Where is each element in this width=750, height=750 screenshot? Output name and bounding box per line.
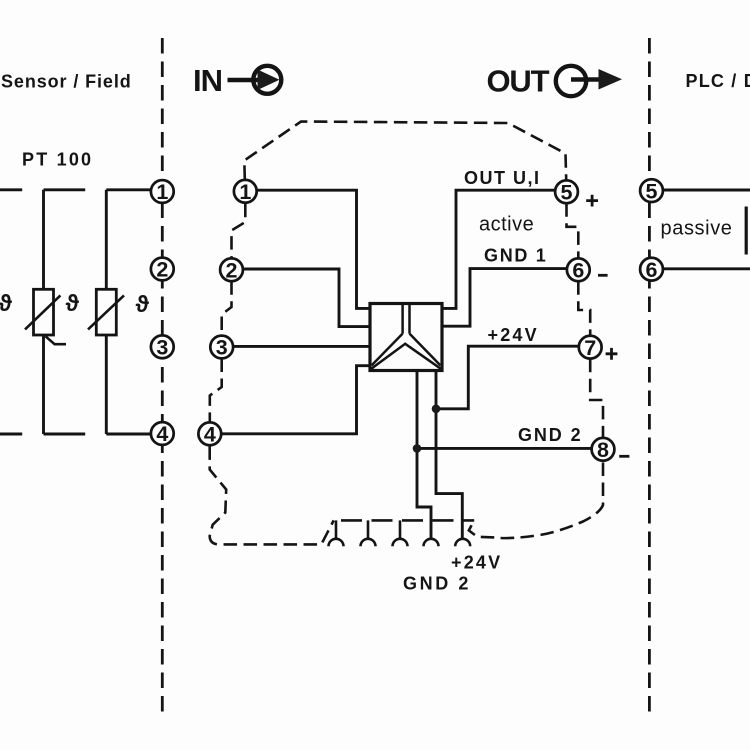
svg-text:ϑ: ϑ (0, 290, 13, 316)
svg-text:ϑ: ϑ (136, 291, 150, 317)
svg-text:4: 4 (156, 422, 168, 446)
svg-text:Sensor / Field: Sensor / Field (1, 72, 132, 92)
svg-text:OUT U,I: OUT U,I (464, 168, 541, 188)
svg-text:passive: passive (661, 217, 733, 239)
svg-text:+24V: +24V (488, 325, 539, 345)
svg-text:8: 8 (597, 438, 609, 462)
svg-text:5: 5 (561, 181, 573, 205)
svg-text:OUT: OUT (487, 64, 550, 99)
svg-text:IN: IN (193, 63, 222, 98)
svg-text:1: 1 (156, 180, 168, 204)
svg-text:5: 5 (646, 179, 658, 203)
svg-text:2: 2 (156, 258, 168, 282)
svg-text:3: 3 (156, 336, 168, 360)
svg-text:3: 3 (216, 336, 228, 360)
svg-text:+24V: +24V (451, 552, 502, 572)
svg-text:2: 2 (226, 259, 238, 283)
svg-text:PT 100: PT 100 (22, 149, 93, 169)
svg-text:active: active (479, 213, 534, 235)
svg-text:7: 7 (584, 336, 596, 360)
svg-text:PLC / DCS: PLC / DCS (686, 71, 750, 91)
svg-text:6: 6 (572, 259, 584, 283)
svg-text:4: 4 (204, 423, 216, 447)
svg-text:1: 1 (239, 180, 251, 204)
svg-text:ϑ: ϑ (66, 290, 80, 316)
svg-text:6: 6 (646, 258, 658, 282)
svg-text:GND 2: GND 2 (518, 425, 583, 445)
svg-text:GND 1: GND 1 (484, 245, 548, 265)
svg-text:GND 2: GND 2 (403, 573, 471, 593)
